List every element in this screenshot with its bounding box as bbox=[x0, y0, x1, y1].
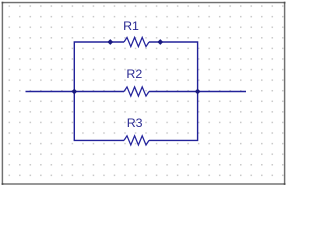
junction node right bus / middle wire bbox=[195, 89, 201, 95]
border frame bbox=[2, 3, 284, 184]
resistor R3 bbox=[124, 136, 149, 145]
wire left bus with top/bottom stubs bbox=[74, 42, 124, 140]
border corner top-left bbox=[2, 2, 4, 4]
junction dot R1 left pin bbox=[107, 39, 113, 45]
junction node left bus / middle wire bbox=[71, 89, 77, 95]
wire left half of middle branch bbox=[26, 91, 125, 93]
svg-text:R1: R1 bbox=[123, 19, 139, 33]
svg-text:R2: R2 bbox=[126, 67, 142, 81]
border corner bottom-left bbox=[2, 183, 4, 185]
junction dot R1 right pin bbox=[157, 39, 163, 45]
wire right half of middle branch bbox=[149, 91, 246, 93]
wire right bus with top/bottom stubs bbox=[149, 42, 198, 140]
border corner top-right bbox=[284, 2, 286, 4]
border corner bottom-right bbox=[284, 183, 286, 185]
svg-text:R3: R3 bbox=[127, 116, 143, 130]
resistor R1 bbox=[124, 37, 149, 46]
resistor R2 bbox=[124, 87, 149, 96]
